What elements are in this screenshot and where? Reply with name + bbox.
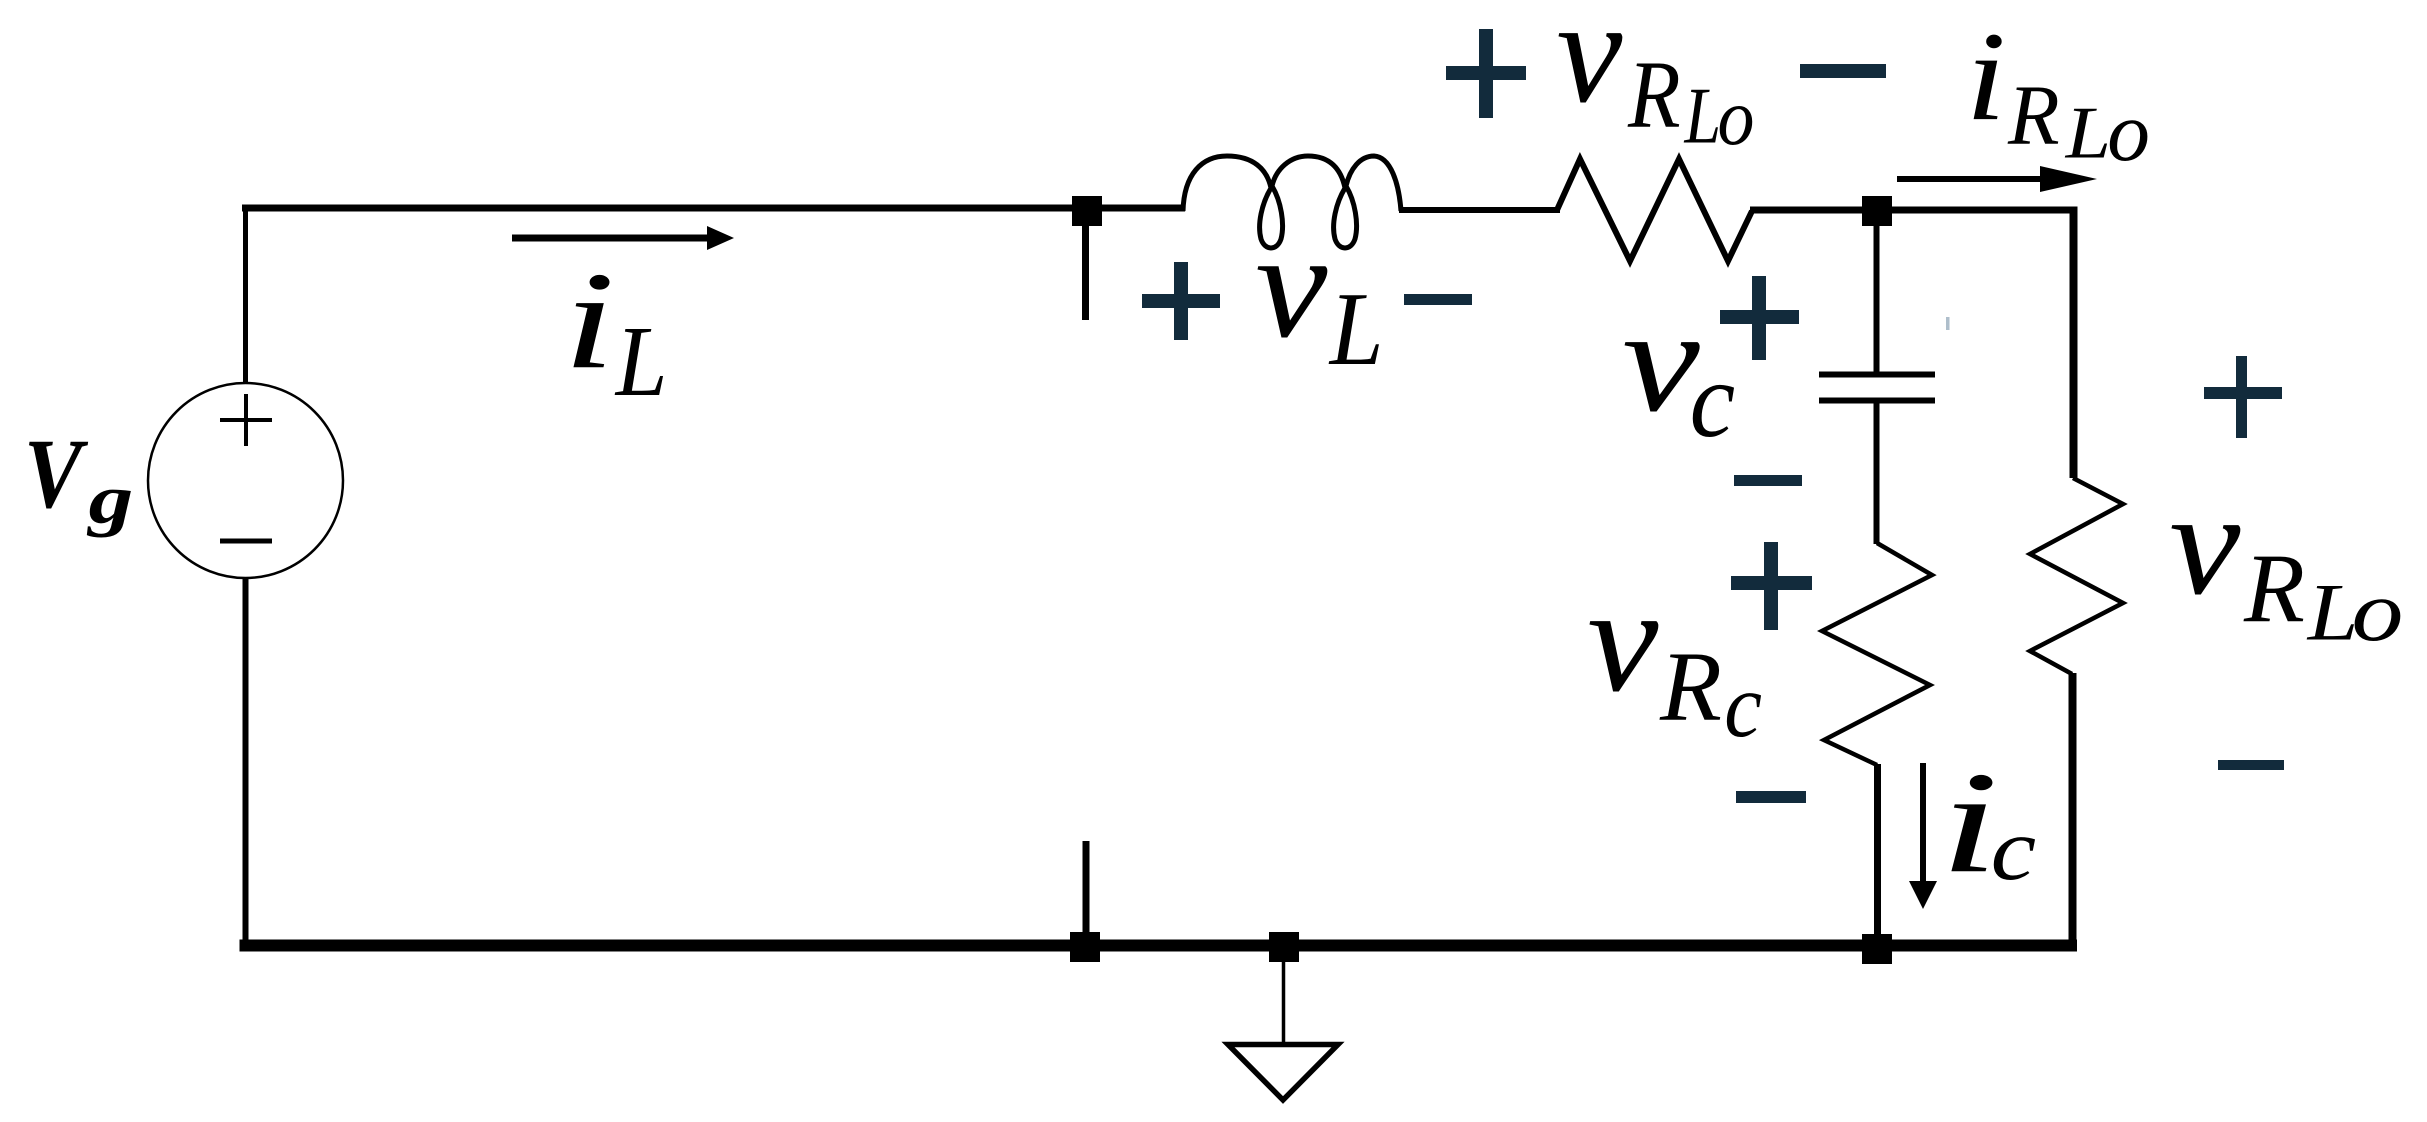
current arrow iRLo head [2040,166,2097,192]
ground symbol stem [1282,959,1286,1045]
resistor R_Lo (top horizontal zigzag) [1557,159,1752,261]
plus sign inside source Vg [220,394,272,446]
wire: stub below top-left node (switch terminal) [1082,224,1089,320]
wire: right vertical from load resistor down to bottom rail [2069,673,2077,950]
svg-text:o: o [2352,563,2404,659]
node junction at capacitor branch (top) [1862,196,1892,226]
wire: capacitor branch from top node down to capacitor top plate [1874,224,1880,373]
current arrow iL head [707,226,734,250]
node junction at ground symbol [1269,932,1299,962]
minus sign of vRLo(right) label [2218,760,2284,770]
voltage source Vg circle [148,383,343,578]
wire: top rail from resistor R_Lo to right corner [1750,207,2077,214]
faint scan artifact near capacitor [1946,317,1950,330]
node junction on ground rail below switch stub [1070,932,1100,962]
resistor R_Lo load (right vertical zigzag) [2030,478,2123,674]
svg-text:V: V [24,420,89,529]
current arrow ic head [1909,881,1937,909]
svg-text:o: o [2107,85,2150,179]
plus sign of vL label [1142,262,1220,340]
svg-text:R: R [2007,68,2060,163]
minus sign of vL label [1404,294,1472,305]
svg-text:L: L [1328,270,1384,386]
node junction at inductor input (top) [1072,196,1102,226]
svg-text:v: v [1622,278,1700,442]
plus sign of vRc label [1731,542,1812,630]
svg-text:v: v [1557,0,1623,134]
svg-text:c: c [1991,799,2037,898]
current arrow ic shaft [1920,763,1926,884]
minus sign of vc label [1734,475,1802,486]
wire: from resistor R_c down to bottom rail [1874,764,1881,945]
plus sign of vRLo(top) label [1446,29,1526,118]
current arrow iL shaft [512,235,710,242]
minus sign inside source Vg [220,539,272,544]
svg-text:c: c [1690,340,1736,460]
svg-text:i: i [563,243,615,397]
svg-text:L: L [1684,72,1721,161]
wire: stub above bottom node (switch terminal) [1083,841,1090,945]
svg-text:L: L [2065,92,2111,174]
inductor L (three loops) [1183,156,1401,248]
svg-text:R: R [1659,630,1722,741]
ground symbol triangle [1228,1045,1338,1101]
svg-text:R: R [1627,40,1681,148]
minus sign of vRLo(top) label [1800,64,1886,78]
svg-text:L: L [614,306,668,417]
wire: bottom ground rail [240,940,2078,952]
wire: right vertical from top-right corner down to load resistor [2070,207,2078,479]
capacitor C top plate [1819,372,1935,378]
svg-text:v: v [1587,557,1658,723]
wire: top rail between inductor and resistor R_Lo [1399,207,1560,213]
wire: left vertical from source Vg minus terminal down to bottom rail [243,576,249,951]
svg-text:v: v [1255,202,1327,370]
plus sign of vc label [1720,276,1799,360]
minus sign of vRc label [1736,791,1806,803]
current arrow iRLo shaft [1897,176,2045,182]
capacitor C bottom plate [1819,398,1935,404]
wire: top rail from source to inductor [242,205,1185,212]
svg-text:R: R [2243,535,2305,643]
wire: capacitor branch between bottom plate and resistor R_c [1874,402,1880,544]
svg-text:v: v [2169,462,2241,625]
resistor R_c (vertical zigzag in capacitor branch) [1822,543,1932,765]
node junction at capacitor branch (bottom) [1862,934,1892,964]
wire: left vertical from top rail down to source Vg plus terminal [243,205,248,385]
svg-text:L: L [2306,567,2359,658]
svg-text:i: i [1966,6,2007,147]
plus sign of vRLo(right) label [2204,356,2282,438]
svg-text:c: c [1724,656,1762,756]
svg-text:g: g [86,462,133,538]
svg-text:o: o [1718,72,1755,162]
